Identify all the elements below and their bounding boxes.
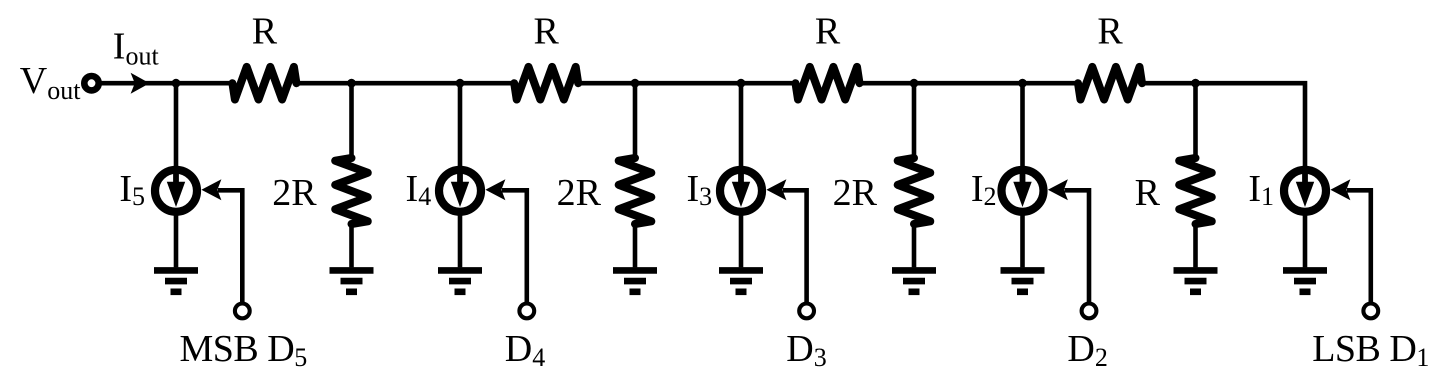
svg-text:R: R [1097,10,1123,52]
svg-text:I3: I3 [686,168,712,211]
wire R2 to R3 [576,81,797,86]
node I3 [737,79,746,88]
wire [218,190,242,303]
current source I5 [155,170,197,212]
svg-text:I1: I1 [1248,168,1274,211]
svg-text:R: R [534,10,560,52]
ground [330,270,374,291]
wire I5 to ground [174,212,179,268]
wire shunt resistor to ground [633,223,638,267]
control arrow of I5 [201,179,221,200]
terminal D4 [519,304,534,319]
wire I2 to ground [1020,212,1025,268]
node I4 [456,79,465,88]
wire rail to I2 [1020,83,1025,170]
wire rail to shunt resistor [1193,83,1198,159]
resistor R (series #1) [232,67,296,100]
terminal Vout [84,76,98,90]
wire [502,190,527,303]
wire rail to I3 [739,83,744,170]
wire I4 to ground [458,212,463,268]
svg-text:D4: D4 [505,328,545,372]
wire shunt resistor to ground [912,223,917,267]
wire I3 to ground [739,212,744,268]
control arrow of I1 [1330,179,1350,200]
svg-text:LSB D1: LSB D1 [1312,328,1429,372]
resistor 2R (shunt #3) [898,158,931,224]
wire R4 to I1 branch [1140,83,1305,170]
ground [613,270,657,291]
current source I4 [439,170,481,212]
ground [1283,270,1327,291]
resistor R (shunt #4) [1179,158,1212,224]
current direction arrow Iout [131,73,150,94]
wire R1 to R2 [294,81,516,86]
node I5 [172,79,181,88]
svg-text:Vout: Vout [20,60,81,105]
svg-text:2R: 2R [833,172,878,214]
ground [892,270,936,291]
node 2R c [910,79,919,88]
resistor R (series #3) [796,67,860,100]
wire shunt resistor to ground [349,223,354,267]
svg-text:2R: 2R [557,172,602,214]
resistor 2R (shunt #2) [619,158,652,224]
wire rail to I5 [174,83,179,170]
control arrow of I3 [766,179,786,200]
wire rail to shunt resistor [349,83,354,159]
svg-text:I5: I5 [119,168,145,211]
svg-text:2R: 2R [272,172,317,214]
wire [1347,190,1371,303]
svg-text:D2: D2 [1067,328,1107,372]
resistor 2R (shunt #1) [335,158,368,224]
control arrow of I4 [485,179,505,200]
svg-text:Iout: Iout [113,26,160,71]
terminal D2 [1082,304,1097,319]
svg-text:I4: I4 [406,168,432,211]
terminal D3 [799,304,814,319]
svg-text:I2: I2 [971,168,997,211]
current source I1 [1284,170,1326,212]
ground [438,270,482,291]
node 2R b [631,79,640,88]
ground [719,270,763,291]
resistor R (series #4) [1078,67,1142,100]
ground [154,270,198,291]
wire rail to shunt resistor [912,83,917,159]
svg-text:R: R [252,10,278,52]
ground [1001,270,1045,291]
terminal D5 [235,304,250,319]
wire [1064,190,1089,303]
wire rail to shunt resistor [633,83,638,159]
control arrow of I2 [1048,179,1068,200]
node I2 [1018,79,1027,88]
ground [1174,270,1218,291]
terminal D1 [1363,304,1378,319]
wire [783,190,807,303]
wire rail to I4 [458,83,463,170]
svg-text:D3: D3 [786,328,826,372]
resistor R (series #2) [514,67,578,100]
wire shunt resistor to ground [1193,223,1198,267]
wire I1 to ground [1303,212,1308,268]
wire Vout to R1 [98,81,234,86]
current source I2 [1002,170,1044,212]
svg-text:R: R [815,10,841,52]
current source I3 [720,170,762,212]
svg-text:R: R [1135,172,1161,214]
node R d [1191,79,1200,88]
wire R3 to R4 [858,81,1081,86]
svg-text:MSB D5: MSB D5 [180,328,307,372]
node 2R a [347,79,356,88]
